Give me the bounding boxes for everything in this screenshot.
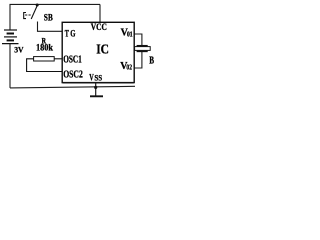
wire top rail xyxy=(10,4,100,29)
wire R left loop to OSC2 xyxy=(27,59,63,72)
ground bar xyxy=(90,95,103,97)
wire VCC drop xyxy=(99,4,101,22)
svg-text:OSC2: OSC2 xyxy=(63,70,83,81)
node junction dot on top rail xyxy=(36,4,39,7)
svg-text:SS: SS xyxy=(94,72,102,82)
svg-text:V: V xyxy=(89,72,94,82)
ground at VSS xyxy=(90,86,103,97)
svg-text:B: B xyxy=(149,56,154,67)
IC U1 box xyxy=(62,22,134,82)
svg-text:IC: IC xyxy=(96,41,109,56)
switch SB pushbutton xyxy=(24,4,39,20)
resistor R 180k xyxy=(27,57,63,72)
svg-text:G: G xyxy=(70,30,76,40)
battery GB 3V xyxy=(2,30,19,44)
node junction dot on bottom rail xyxy=(94,86,97,89)
svg-text:VCC: VCC xyxy=(91,22,107,32)
svg-text:180k: 180k xyxy=(36,43,53,53)
svg-text:SB: SB xyxy=(44,14,53,24)
buzzer B xyxy=(135,46,151,52)
switch actuator dashed link xyxy=(25,14,31,16)
switch blade xyxy=(31,6,37,19)
svg-text:T: T xyxy=(65,30,70,40)
svg-text:OSC1: OSC1 xyxy=(63,55,82,66)
wire buzzer bottom to V02 xyxy=(134,52,142,68)
switch actuator bracket xyxy=(24,13,26,19)
svg-text:3V: 3V xyxy=(14,45,23,54)
svg-text:02: 02 xyxy=(126,64,132,72)
wire IC bottom edge thickening xyxy=(63,82,134,84)
wire R right to OSC1 xyxy=(54,58,62,60)
svg-text:01: 01 xyxy=(127,30,133,38)
wire left rail lower xyxy=(9,44,11,88)
wire V01 to buzzer xyxy=(134,34,142,45)
wire bottom rail xyxy=(10,86,135,88)
wire switch stub to TG xyxy=(38,22,63,32)
wire VSS drop to ground xyxy=(95,83,97,96)
